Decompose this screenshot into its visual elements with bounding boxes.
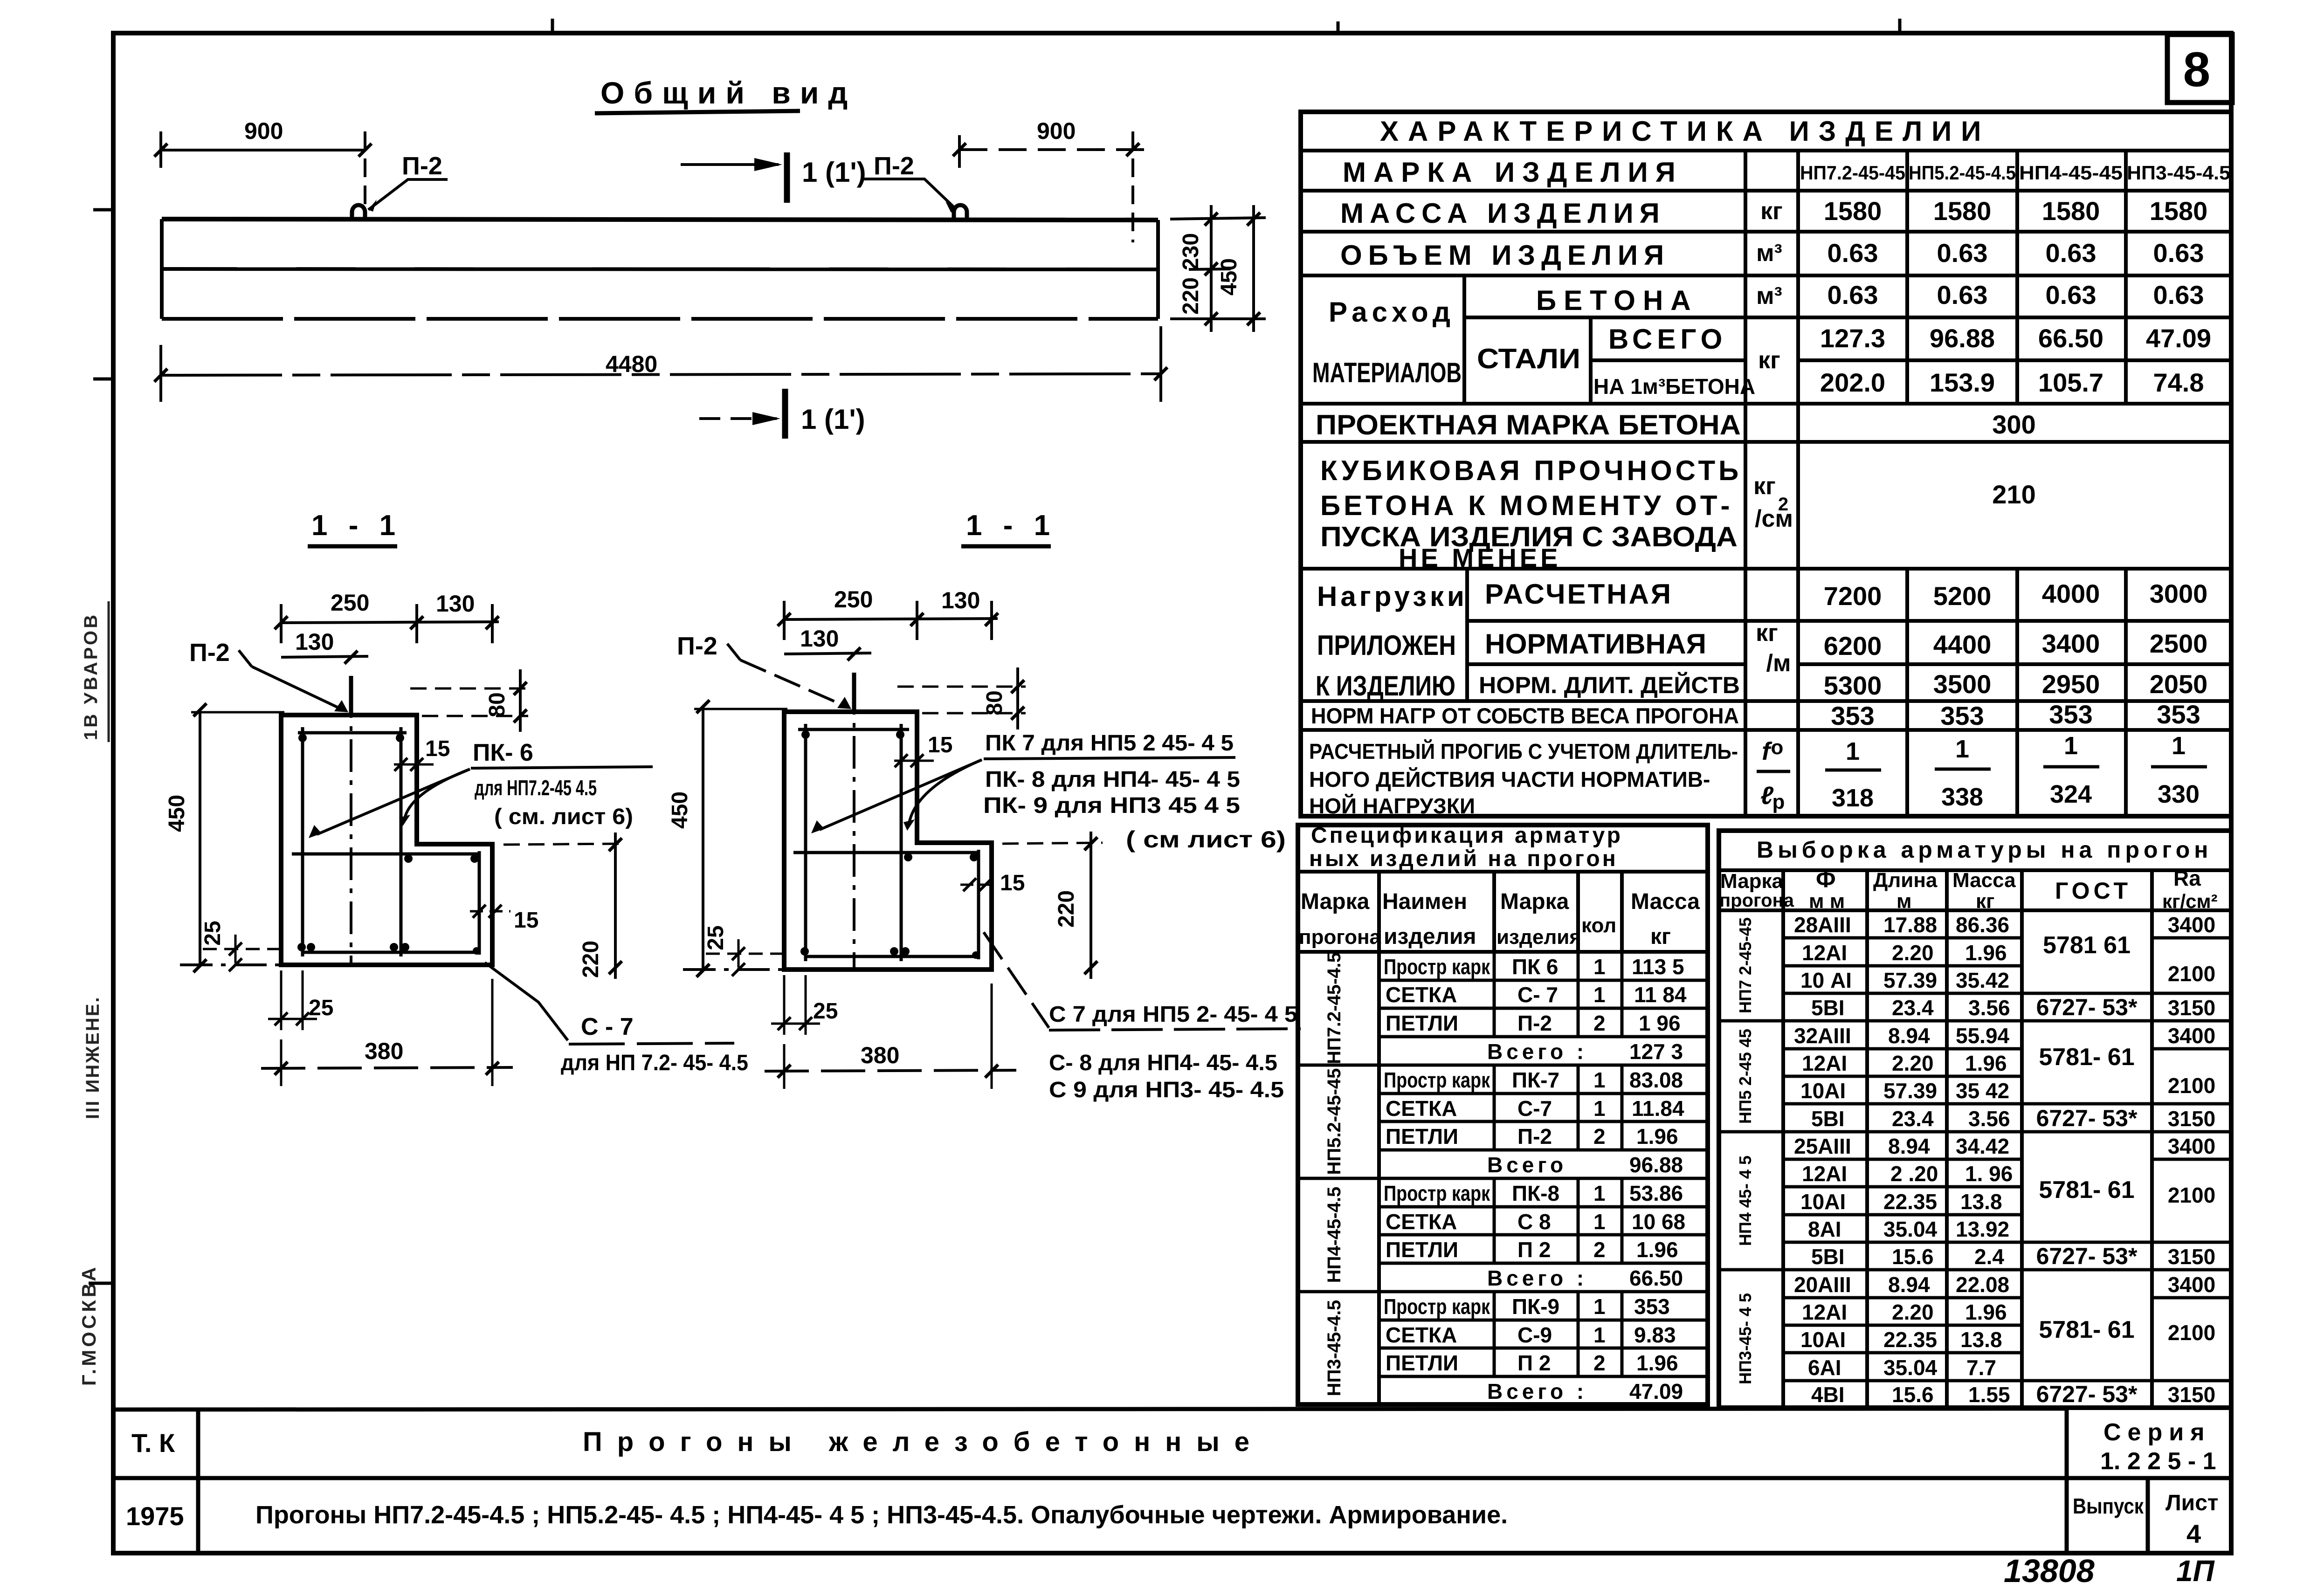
svg-text:м: м <box>1896 890 1912 913</box>
svg-text:96.88: 96.88 <box>1629 1153 1683 1177</box>
svg-text:8.94: 8.94 <box>1888 1273 1930 1297</box>
svg-text:47.09: 47.09 <box>2146 323 2211 353</box>
svg-text:Серия: Серия <box>2103 1419 2211 1446</box>
svg-text:450: 450 <box>668 791 692 829</box>
svg-text:2500: 2500 <box>2150 629 2208 658</box>
svg-text:130: 130 <box>800 626 839 652</box>
svg-text:15: 15 <box>1000 871 1025 895</box>
svg-text:35.42: 35.42 <box>1956 968 2009 992</box>
svg-text:Спецификация арматур: Спецификация арматур <box>1311 823 1623 848</box>
svg-text:2.20: 2.20 <box>1892 1051 1934 1075</box>
svg-text:Прогоны НП7.2-45-4.5 ; НП5.: Прогоны НП7.2-45-4.5 ; НП5.2-45- 4.5 ; Н… <box>255 1501 1508 1529</box>
svg-text:Наимен: Наимен <box>1382 889 1467 914</box>
svg-text:1: 1 <box>1593 1294 1606 1319</box>
svg-text:Лист: Лист <box>2165 1491 2218 1515</box>
svg-text:МАССА ИЗДЕЛИЯ: МАССА ИЗДЕЛИЯ <box>1340 198 1666 229</box>
svg-text:кг: кг <box>1756 619 1778 647</box>
label S-7 left <box>485 963 568 1040</box>
svg-text:4400: 4400 <box>1933 630 1992 659</box>
svg-text:9.83: 9.83 <box>1634 1323 1676 1347</box>
svg-text:ПК- 9 для НП3 45 4 5: ПК- 9 для НП3 45 4 5 <box>983 793 1240 818</box>
svg-text:2.20: 2.20 <box>1892 1300 1934 1324</box>
svg-text:Rа: Rа <box>2173 866 2201 890</box>
spec item column lines <box>1493 952 1496 1037</box>
svg-text:С-9: С-9 <box>1517 1323 1552 1347</box>
svg-text:900: 900 <box>244 118 283 144</box>
svg-text:153.9: 153.9 <box>1930 368 1995 397</box>
svg-text:66.50: 66.50 <box>2038 323 2103 353</box>
svg-text:НОРМ НАГР ОТ СОБСТВ ВЕСА ПРОГО: НОРМ НАГР ОТ СОБСТВ ВЕСА ПРОГОНА <box>1311 703 1739 728</box>
svg-text:С 8: С 8 <box>1517 1210 1551 1234</box>
svg-text:С- 7: С- 7 <box>1517 983 1558 1007</box>
svg-text:П 2: П 2 <box>1517 1238 1551 1262</box>
lifting loop P-2 left <box>352 205 365 219</box>
svg-text:338: 338 <box>1941 783 1983 811</box>
svg-text:230: 230 <box>1179 233 1203 270</box>
left margin signatures (vertical) <box>78 612 103 1386</box>
svg-text:1 (1'): 1 (1') <box>802 157 866 188</box>
svg-text:2100: 2100 <box>2168 1073 2215 1098</box>
svg-text:3.56: 3.56 <box>1968 1107 2010 1131</box>
svg-text:3400: 3400 <box>2042 629 2100 658</box>
svg-text:25: 25 <box>703 925 728 950</box>
svg-text:Простр карк: Простр карк <box>1384 1294 1490 1319</box>
svg-text:Простр карк: Простр карк <box>1384 1068 1490 1092</box>
svg-text:СТАЛИ: СТАЛИ <box>1477 343 1580 374</box>
svg-text:53.86: 53.86 <box>1629 1181 1683 1205</box>
svg-text:С 9 для НП3- 45- 4.5: С 9 для НП3- 45- 4.5 <box>1049 1078 1284 1102</box>
svg-text:5781- 61: 5781- 61 <box>2039 1176 2134 1204</box>
spec header columns <box>1377 872 1381 1404</box>
svg-text:15: 15 <box>514 908 538 933</box>
centre axis dash-dot left <box>350 685 352 963</box>
svg-text:15.6: 15.6 <box>1892 1383 1934 1407</box>
svg-text:СЕТКА: СЕТКА <box>1386 1323 1457 1347</box>
svg-text:8.94: 8.94 <box>1888 1024 1930 1048</box>
section outline right <box>784 712 992 970</box>
svg-text:1580: 1580 <box>2042 196 2100 226</box>
spec table outer border <box>1298 825 1708 1404</box>
svg-text:ХАРАКТЕРИСТИКА ИЗДЕЛИИ: ХАРАКТЕРИСТИКА ИЗДЕЛИИ <box>1380 116 1990 147</box>
svg-text:ВСЕГО: ВСЕГО <box>1608 323 1727 355</box>
svg-text:1: 1 <box>1593 1323 1606 1347</box>
inner split columns <box>1462 275 1466 404</box>
svg-text:К ИЗДЕЛИЮ: К ИЗДЕЛИЮ <box>1316 670 1455 702</box>
svg-text:5781- 61: 5781- 61 <box>2039 1316 2134 1343</box>
rebar cage right <box>793 724 979 961</box>
svg-text:Общий вид: Общий вид <box>600 76 857 110</box>
column lines <box>1744 151 1747 816</box>
svg-text:НОРМАТИВНАЯ: НОРМАТИВНАЯ <box>1485 628 1706 660</box>
vyborka group marks (rotated) <box>1736 917 1755 1384</box>
svg-text:13.92: 13.92 <box>1956 1217 2009 1241</box>
svg-text:( см лист 6): ( см лист 6) <box>1126 826 1286 853</box>
svg-text:1: 1 <box>1593 1068 1606 1092</box>
svg-text:1.96: 1.96 <box>1636 1124 1678 1149</box>
svg-text:25: 25 <box>813 999 838 1024</box>
svg-text:прогона: прогона <box>1299 926 1381 949</box>
svg-text:БЕТОНА: БЕТОНА <box>1536 285 1698 316</box>
svg-text:23.4: 23.4 <box>1892 1107 1934 1131</box>
svg-text:НП4 45- 4 5: НП4 45- 4 5 <box>1736 1156 1755 1246</box>
svg-text:/см: /см <box>1755 505 1793 532</box>
svg-text:Простр карк: Простр карк <box>1384 955 1490 979</box>
svg-text:2 .20: 2 .20 <box>1890 1162 1938 1186</box>
svg-text:1.96: 1.96 <box>1636 1351 1678 1375</box>
svg-text:22.35: 22.35 <box>1883 1190 1937 1214</box>
svg-text:Всего :: Всего : <box>1487 1039 1587 1064</box>
svg-text:м м: м м <box>1809 890 1845 913</box>
svg-text:ПРОЕКТНАЯ МАРКА БЕТОНА: ПРОЕКТНАЯ МАРКА БЕТОНА <box>1316 409 1741 440</box>
svg-text:НОГО ДЕЙСТВИЯ ЧАСТИ НОРМАТИВ-: НОГО ДЕЙСТВИЯ ЧАСТИ НОРМАТИВ- <box>1309 767 1710 791</box>
svg-text:57.39: 57.39 <box>1883 1079 1937 1103</box>
section outline left <box>281 715 492 965</box>
svg-text:35.04: 35.04 <box>1883 1355 1938 1380</box>
svg-text:кол: кол <box>1581 914 1616 937</box>
leader P-2 right <box>863 179 956 209</box>
svg-text:330: 330 <box>2158 780 2200 808</box>
page number box <box>2167 34 2232 103</box>
svg-text:кг: кг <box>1650 924 1671 949</box>
svg-text:202.0: 202.0 <box>1820 368 1885 397</box>
svg-text:1П: 1П <box>2176 1554 2215 1588</box>
svg-text:1 96: 1 96 <box>1639 1011 1681 1035</box>
svg-text:6727- 53*: 6727- 53* <box>2036 1105 2138 1131</box>
svg-text:2.20: 2.20 <box>1892 941 1934 965</box>
margin underline for signature <box>108 601 110 742</box>
svg-text:НП7.2-45-45: НП7.2-45-45 <box>1800 162 1905 184</box>
svg-text:0.63: 0.63 <box>2153 280 2204 310</box>
svg-text:1.96: 1.96 <box>1965 1300 2007 1324</box>
svg-text:4: 4 <box>2186 1519 2201 1548</box>
svg-text:Всего :: Всего : <box>1487 1266 1587 1290</box>
svg-text:НА 1м³БЕТОНА: НА 1м³БЕТОНА <box>1593 374 1755 399</box>
svg-text:С- 8 для НП4- 45- 4.5: С- 8 для НП4- 45- 4.5 <box>1049 1051 1277 1075</box>
svg-text:3000: 3000 <box>2150 579 2208 608</box>
svg-text:0.63: 0.63 <box>1937 280 1988 310</box>
deflection fractions <box>1832 732 2200 812</box>
svg-text:35 42: 35 42 <box>1956 1079 2009 1103</box>
svg-text:353: 353 <box>1940 701 1984 730</box>
svg-text:15.6: 15.6 <box>1892 1245 1934 1269</box>
dim 80 right section <box>897 686 1026 688</box>
svg-text:0.63: 0.63 <box>2046 238 2096 268</box>
svg-text:11 84: 11 84 <box>1634 983 1687 1007</box>
svg-text:o: o <box>1771 736 1784 759</box>
svg-text:0.63: 0.63 <box>2153 238 2204 268</box>
svg-text:м³: м³ <box>1756 240 1782 267</box>
svg-text:2950: 2950 <box>2042 669 2100 699</box>
svg-text:ПК- 6: ПК- 6 <box>473 739 533 766</box>
svg-text:5781- 61: 5781- 61 <box>2039 1044 2134 1071</box>
svg-text:/м: /м <box>1766 650 1791 677</box>
svg-text:С - 7: С - 7 <box>581 1013 634 1040</box>
svg-text:2.4: 2.4 <box>1974 1245 2004 1269</box>
svg-text:20АIII: 20АIII <box>1794 1273 1851 1297</box>
svg-text:5300: 5300 <box>1824 671 1882 700</box>
svg-text:4ВI: 4ВI <box>1811 1383 1845 1407</box>
svg-text:4000: 4000 <box>2042 579 2100 608</box>
svg-text:300: 300 <box>1992 410 2035 439</box>
svg-text:1: 1 <box>2172 732 2186 760</box>
svg-text:3400: 3400 <box>2168 1273 2215 1297</box>
svg-text:НП3-45-4.5: НП3-45-4.5 <box>2127 162 2230 184</box>
svg-text:Ф: Ф <box>1816 866 1836 892</box>
beam outline <box>162 219 1158 319</box>
svg-text:Расход: Расход <box>1329 296 1455 328</box>
svg-text:изделия: изделия <box>1496 926 1581 949</box>
handwritten numbers below <box>2004 1553 2215 1589</box>
svg-text:ПК-8: ПК-8 <box>1512 1181 1559 1205</box>
svg-text:П 2: П 2 <box>1517 1351 1551 1375</box>
svg-text:ПРИЛОЖЕН: ПРИЛОЖЕН <box>1317 630 1456 661</box>
svg-text:III ИНЖЕНЕ.: III ИНЖЕНЕ. <box>83 996 103 1119</box>
svg-text:кг: кг <box>1753 473 1776 500</box>
svg-text:2100: 2100 <box>2168 1321 2215 1345</box>
svg-text:2: 2 <box>1593 1124 1606 1149</box>
svg-text:Выпуск: Выпуск <box>2073 1494 2144 1518</box>
svg-text:1.96: 1.96 <box>1965 941 2007 965</box>
svg-text:12АI: 12АI <box>1802 1162 1847 1186</box>
svg-text:0.63: 0.63 <box>1827 280 1878 310</box>
svg-text:Выборка арматуры на прогон: Выборка арматуры на прогон <box>1757 837 2212 863</box>
section mark 1(1') top <box>784 152 790 203</box>
table outer border <box>1301 112 2231 816</box>
svg-text:Всего: Всего <box>1487 1153 1567 1177</box>
svg-text:1 - 1: 1 - 1 <box>311 509 402 542</box>
svg-text:ных изделий на прогон: ных изделий на прогон <box>1309 846 1618 871</box>
svg-text:2100: 2100 <box>2168 1183 2215 1207</box>
svg-text:8.94: 8.94 <box>1888 1134 1930 1158</box>
svg-text:1: 1 <box>1846 737 1860 765</box>
svg-text:3400: 3400 <box>2168 1024 2215 1048</box>
row lines <box>1301 149 2231 152</box>
svg-text:3150: 3150 <box>2168 996 2215 1020</box>
svg-text:11.84: 11.84 <box>1632 1096 1684 1121</box>
svg-text:м³: м³ <box>1756 282 1782 310</box>
vyborka outer border <box>1719 831 2231 1408</box>
svg-text:10 АI: 10 АI <box>1800 968 1852 992</box>
title underline <box>595 111 800 113</box>
svg-text:34.42: 34.42 <box>1956 1134 2009 1158</box>
svg-text:СЕТКА: СЕТКА <box>1386 1210 1457 1234</box>
svg-text:450: 450 <box>165 795 189 832</box>
svg-text:2: 2 <box>1593 1011 1606 1035</box>
svg-text:П-2: П-2 <box>874 152 914 180</box>
svg-text:НОЙ НАГРУЗКИ: НОЙ НАГРУЗКИ <box>1309 794 1475 818</box>
svg-text:3150: 3150 <box>2168 1245 2215 1269</box>
svg-text:НОРМ. ДЛИТ. ДЕЙСТВ: НОРМ. ДЛИТ. ДЕЙСТВ <box>1479 672 1740 698</box>
loop stem left <box>349 676 353 715</box>
svg-text:3.56: 3.56 <box>1968 996 2010 1020</box>
svg-text:1580: 1580 <box>1933 196 1992 226</box>
svg-text:П-2: П-2 <box>402 152 442 180</box>
svg-text:6727- 53*: 6727- 53* <box>2036 994 2138 1020</box>
svg-text:РАСЧЕТНЫЙ ПРОГИБ С УЧЕТОМ ДЛИТ: РАСЧЕТНЫЙ ПРОГИБ С УЧЕТОМ ДЛИТЕЛЬ- <box>1309 739 1738 764</box>
svg-text:380: 380 <box>861 1042 899 1068</box>
svg-text:НП5 2-45 45: НП5 2-45 45 <box>1736 1029 1755 1124</box>
svg-text:1.55: 1.55 <box>1968 1383 2010 1407</box>
svg-text:5781 61: 5781 61 <box>2043 932 2131 959</box>
svg-text:130: 130 <box>295 629 334 655</box>
svg-text:Марка: Марка <box>1720 870 1784 893</box>
svg-text:105.7: 105.7 <box>2038 368 2103 397</box>
svg-text:С-7: С-7 <box>1517 1096 1552 1121</box>
svg-text:220: 220 <box>1179 277 1203 315</box>
rebar dots left <box>297 734 480 955</box>
svg-text:130: 130 <box>941 587 980 613</box>
svg-text:1580: 1580 <box>2150 196 2208 226</box>
svg-text:5ВI: 5ВI <box>1811 1245 1845 1269</box>
svg-text:127 3: 127 3 <box>1629 1039 1683 1064</box>
svg-text:НП3-45- 4 5: НП3-45- 4 5 <box>1736 1293 1755 1384</box>
svg-text:0.63: 0.63 <box>1937 238 1988 268</box>
svg-text:1В УВАРОВ: 1В УВАРОВ <box>81 612 101 740</box>
frame tick marks <box>89 19 1900 1283</box>
svg-text:3400: 3400 <box>2168 913 2215 937</box>
svg-text:НП7 2-45-45: НП7 2-45-45 <box>1736 917 1755 1013</box>
svg-text:1: 1 <box>1593 1096 1606 1121</box>
svg-text:кг/см²: кг/см² <box>2162 890 2218 912</box>
leader P-2 left <box>368 179 448 210</box>
svg-text:Марка: Марка <box>1301 889 1370 914</box>
svg-text:7.7: 7.7 <box>1966 1355 1996 1380</box>
svg-text:2: 2 <box>1593 1351 1606 1375</box>
svg-text:Т. К: Т. К <box>131 1428 175 1458</box>
svg-text:Нагрузки: Нагрузки <box>1317 581 1468 612</box>
svg-text:ПК-9: ПК-9 <box>1512 1294 1559 1319</box>
svg-text:МАТЕРИАЛОВ: МАТЕРИАЛОВ <box>1312 357 1462 388</box>
svg-text:П-2: П-2 <box>1517 1124 1552 1149</box>
svg-text:кг: кг <box>1976 890 1994 913</box>
rebar cage left <box>292 727 480 956</box>
svg-text:35.04: 35.04 <box>1883 1217 1938 1241</box>
svg-text:НП4-45-45: НП4-45-45 <box>2019 162 2123 184</box>
svg-text:3150: 3150 <box>2168 1107 2215 1131</box>
rebar dots right <box>800 730 979 959</box>
dim 450 left section <box>199 710 201 966</box>
svg-text:НП5.2-45-45: НП5.2-45-45 <box>1324 1068 1345 1175</box>
dim 450 right section <box>702 707 704 970</box>
svg-text:96.88: 96.88 <box>1930 323 1995 353</box>
svg-text:1.96: 1.96 <box>1636 1238 1678 1262</box>
svg-text:1580: 1580 <box>1824 196 1882 226</box>
svg-text:БЕТОНА К МОМЕНТУ ОТ-: БЕТОНА К МОМЕНТУ ОТ- <box>1320 490 1733 521</box>
svg-text:7200: 7200 <box>1824 581 1882 611</box>
svg-text:220: 220 <box>579 941 603 978</box>
svg-text:изделия: изделия <box>1384 924 1476 949</box>
svg-text:55.94: 55.94 <box>1956 1024 2010 1048</box>
svg-text:250: 250 <box>834 586 873 612</box>
svg-text:П-2: П-2 <box>677 632 717 660</box>
svg-text:прогона: прогона <box>1719 890 1794 911</box>
svg-text:С 7 для НП5 2- 45- 4 5: С 7 для НП5 2- 45- 4 5 <box>1049 1002 1297 1027</box>
svg-text:ПК- 8 для НП4- 45- 4 5: ПК- 8 для НП4- 45- 4 5 <box>985 767 1240 792</box>
svg-text:6200: 6200 <box>1824 631 1882 660</box>
svg-text:ПК 7 для НП5 2 45- 4 5: ПК 7 для НП5 2 45- 4 5 <box>985 731 1234 756</box>
svg-text:1. 96: 1. 96 <box>1965 1162 2013 1186</box>
svg-text:1 (1'): 1 (1') <box>801 404 865 435</box>
svg-text:ПК 6: ПК 6 <box>1512 955 1559 979</box>
svg-text:1: 1 <box>2064 732 2078 760</box>
svg-text:66.50: 66.50 <box>1629 1266 1683 1290</box>
bottom axis dash-dot left section <box>180 963 280 966</box>
dim 220 right section <box>1002 843 1103 844</box>
svg-text:6727- 53*: 6727- 53* <box>2036 1381 2138 1407</box>
svg-text:353: 353 <box>2049 700 2092 729</box>
svg-text:РАСЧЕТНАЯ: РАСЧЕТНАЯ <box>1485 578 1673 610</box>
svg-text:220: 220 <box>1054 890 1079 928</box>
svg-text:( см. лист 6): ( см. лист 6) <box>494 805 633 829</box>
svg-text:5ВI: 5ВI <box>1811 996 1845 1020</box>
svg-text:1: 1 <box>1955 735 1969 763</box>
svg-text:28АIII: 28АIII <box>1794 913 1851 937</box>
svg-text:5200: 5200 <box>1933 581 1992 611</box>
svg-text:Прогоны железобетонные: Прогоны железобетонные <box>583 1427 1264 1457</box>
svg-text:25: 25 <box>200 921 225 945</box>
svg-text:3400: 3400 <box>2168 1134 2215 1158</box>
svg-text:13.8: 13.8 <box>1960 1328 2002 1352</box>
svg-text:для НП 7.2- 45- 4.5: для НП 7.2- 45- 4.5 <box>561 1051 748 1075</box>
svg-text:р: р <box>1772 791 1785 813</box>
svg-text:17.88: 17.88 <box>1883 913 1937 937</box>
svg-text:250: 250 <box>331 590 369 616</box>
svg-text:130: 130 <box>436 591 475 617</box>
loop stem right <box>852 673 856 712</box>
svg-text:1: 1 <box>1593 1210 1606 1234</box>
svg-text:8: 8 <box>2183 42 2210 97</box>
svg-text:1.96: 1.96 <box>1965 1051 2007 1075</box>
svg-text:113 5: 113 5 <box>1632 955 1684 979</box>
svg-text:47.09: 47.09 <box>1629 1379 1683 1403</box>
svg-text:13.8: 13.8 <box>1960 1190 2002 1214</box>
dim 220 left section <box>503 844 627 845</box>
svg-text:ОБЪЕМ ИЗДЕЛИЯ: ОБЪЕМ ИЗДЕЛИЯ <box>1340 240 1670 271</box>
svg-text:П-2: П-2 <box>1517 1011 1552 1035</box>
svg-text:80: 80 <box>982 690 1007 715</box>
right height dims 230/220/450 <box>1170 218 1266 219</box>
svg-text:83.08: 83.08 <box>1629 1068 1683 1092</box>
svg-text:380: 380 <box>365 1038 403 1064</box>
svg-text:ПЕТЛИ: ПЕТЛИ <box>1386 1124 1458 1149</box>
svg-text:0.63: 0.63 <box>2046 280 2096 310</box>
svg-text:НЕ МЕНЕЕ: НЕ МЕНЕЕ <box>1399 543 1561 572</box>
bottom axis dash-dot right section <box>683 968 783 971</box>
svg-text:15: 15 <box>425 736 450 761</box>
svg-text:ПЕТЛИ: ПЕТЛИ <box>1386 1238 1458 1262</box>
svg-text:22.08: 22.08 <box>1956 1273 2009 1297</box>
svg-text:Длина: Длина <box>1873 869 1938 892</box>
svg-text:1975: 1975 <box>126 1501 184 1531</box>
spec group marks (rotated) <box>1324 952 1345 1396</box>
svg-text:ПЕТЛИ: ПЕТЛИ <box>1386 1011 1458 1035</box>
svg-text:Всего :: Всего : <box>1487 1379 1587 1403</box>
svg-text:900: 900 <box>1037 118 1076 144</box>
svg-text:НП5.2-45-4.5: НП5.2-45-4.5 <box>1909 162 2016 184</box>
svg-text:353: 353 <box>1634 1294 1670 1319</box>
svg-text:СЕТКА: СЕТКА <box>1386 1096 1457 1121</box>
svg-text:10АI: 10АI <box>1800 1079 1846 1103</box>
svg-text:НП4-45-4.5: НП4-45-4.5 <box>1324 1187 1345 1283</box>
dim 80 left section <box>410 688 528 690</box>
svg-text:ПК-7: ПК-7 <box>1512 1068 1559 1092</box>
lifting loop P-2 right <box>954 205 967 219</box>
svg-text:Марка: Марка <box>1500 889 1569 914</box>
svg-text:10 68: 10 68 <box>1632 1210 1685 1234</box>
svg-text:МАРКА ИЗДЕЛИЯ: МАРКА ИЗДЕЛИЯ <box>1343 157 1683 188</box>
svg-text:2050: 2050 <box>2150 669 2208 699</box>
svg-text:22.35: 22.35 <box>1883 1328 1937 1352</box>
